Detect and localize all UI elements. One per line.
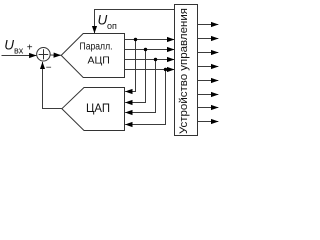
svg-text:−: − [46,63,52,74]
svg-text:U: U [4,38,14,53]
svg-text:оп: оп [107,21,117,31]
svg-text:АЦП: АЦП [88,55,110,67]
svg-text:U: U [98,13,108,28]
svg-text:Паралл.: Паралл. [80,42,113,53]
svg-text:+: + [27,43,33,54]
svg-text:ЦАП: ЦАП [86,103,110,115]
svg-text:вх: вх [14,46,24,56]
svg-text:Устройство управления: Устройство управления [178,8,190,134]
